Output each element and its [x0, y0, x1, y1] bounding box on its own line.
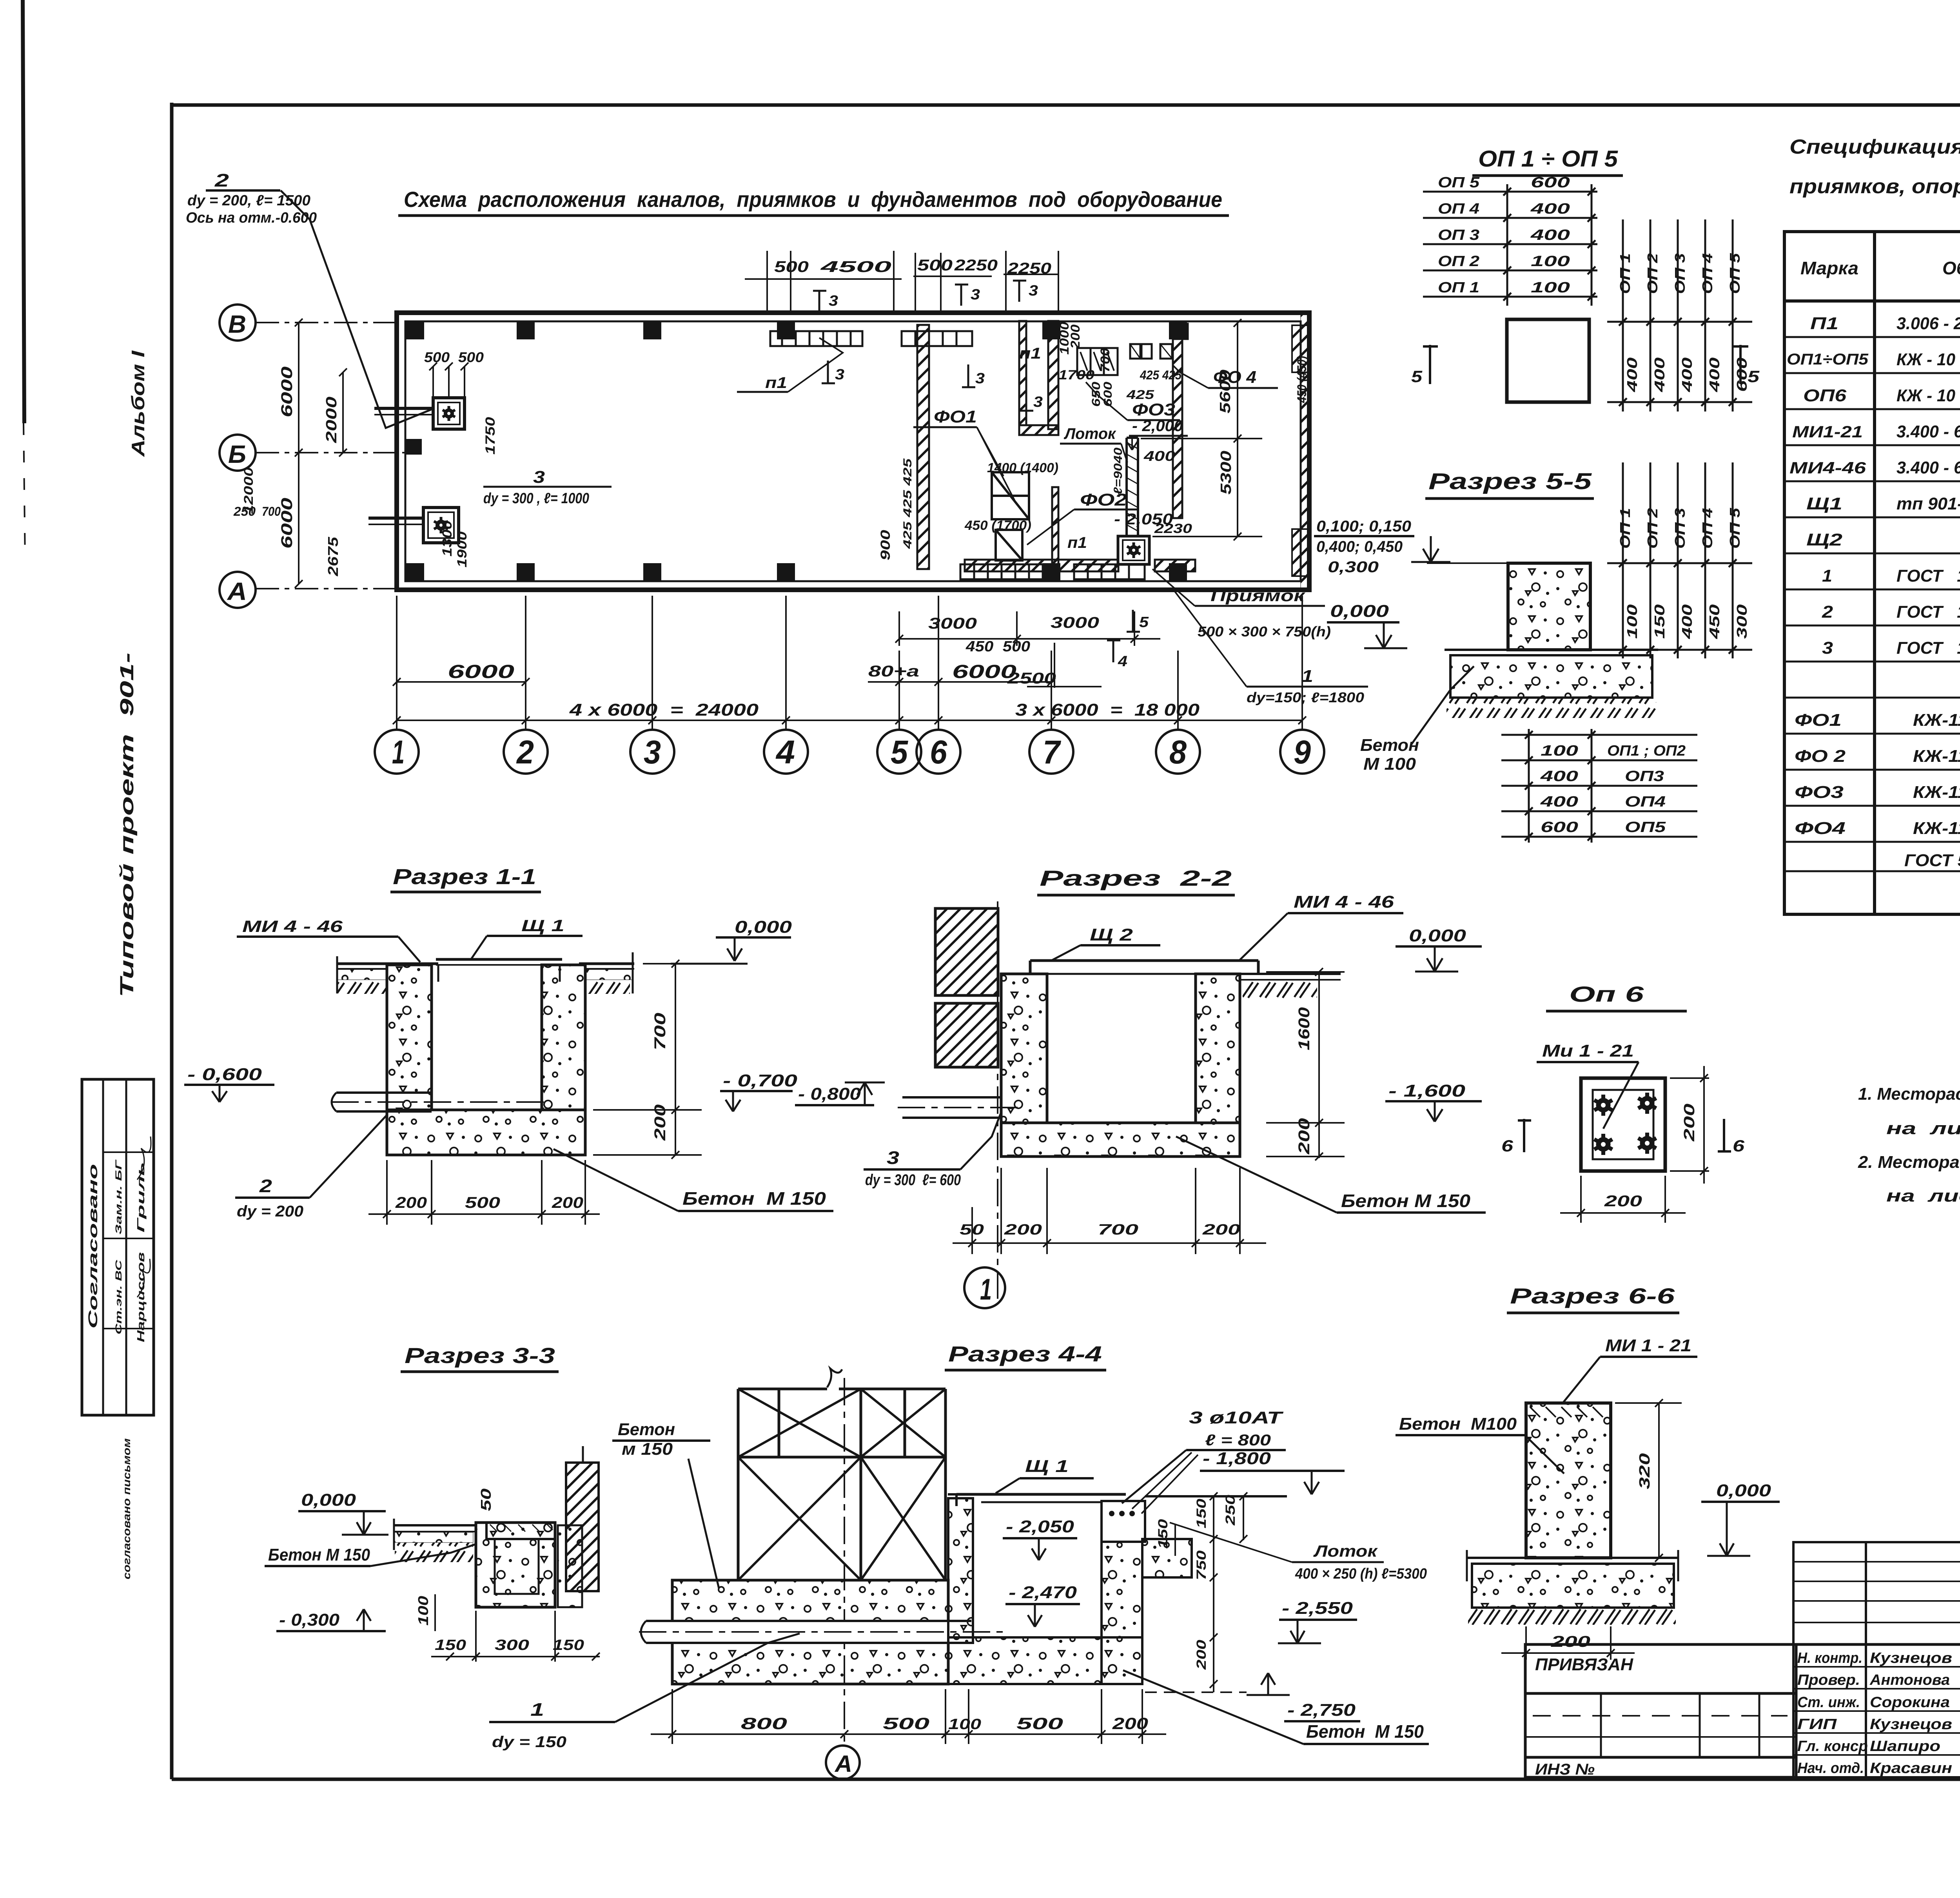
- svg-text:Марка: Марка: [1800, 258, 1858, 278]
- anchor stars: [1594, 1093, 1656, 1155]
- svg-text:200: 200: [552, 1194, 583, 1211]
- svg-text:200: 200: [1068, 324, 1082, 349]
- svg-text:Лоток: Лоток: [1063, 425, 1116, 442]
- svg-text:3: 3: [971, 286, 980, 303]
- privyazan box: [1525, 1644, 1796, 1777]
- svg-text:МИ 4 - 46: МИ 4 - 46: [1294, 892, 1394, 912]
- svg-text:ФО3: ФО3: [1795, 783, 1844, 802]
- svg-text:1700: 1700: [1058, 368, 1094, 383]
- svg-text:ОП4: ОП4: [1625, 794, 1666, 810]
- priyamok pit: [1118, 536, 1149, 564]
- svg-text:6000: 6000: [278, 498, 296, 549]
- svg-text:320: 320: [1637, 1453, 1653, 1489]
- right top equipment grid FO4: [1077, 324, 1188, 375]
- svg-text:3.400 - 6/76: 3.400 - 6/76: [1896, 458, 1960, 477]
- svg-text:3: 3: [644, 734, 661, 770]
- svg-text:1750: 1750: [483, 417, 498, 455]
- svg-text:КЖ - 10: КЖ - 10: [1896, 350, 1956, 369]
- svg-text:3000: 3000: [1051, 614, 1099, 631]
- svg-text:- 1,800: - 1,800: [1203, 1449, 1271, 1468]
- pipe left: [331, 1093, 545, 1111]
- dim 200 6-6: [1501, 1626, 1635, 1660]
- svg-text:500: 500: [465, 1194, 500, 1211]
- svg-text:450 (1700): 450 (1700): [964, 518, 1031, 533]
- svg-text:ОП1÷ОП5: ОП1÷ОП5: [1787, 351, 1869, 368]
- svg-text:Щ 2: Щ 2: [1090, 925, 1133, 944]
- svg-text:100: 100: [415, 1596, 431, 1626]
- 5-5 bottom mini table: [1501, 729, 1697, 843]
- left vertical dims: [295, 319, 347, 588]
- svg-text:3: 3: [533, 468, 545, 487]
- cover plate: [436, 959, 562, 982]
- 5-5 right rotated ladder: [1607, 462, 1752, 658]
- frame left border: [170, 103, 174, 1779]
- svg-text:ГОСТ 5781 - 81: ГОСТ 5781 - 81: [1904, 851, 1960, 870]
- scan edge artifact: [23, 0, 24, 423]
- flange 6-6: [1467, 1550, 1678, 1581]
- svg-text:ГОСТ 10704-76: ГОСТ 10704-76: [1896, 602, 1960, 622]
- svg-text:Нарциссов: Нарциссов: [135, 1252, 147, 1342]
- svg-text:Б: Б: [228, 440, 246, 468]
- svg-text:ОП 2: ОП 2: [1644, 508, 1661, 549]
- dim 320: [1615, 1399, 1682, 1562]
- svg-text:ОП5: ОП5: [1625, 819, 1666, 836]
- svg-text:2: 2: [1822, 602, 1833, 622]
- svg-text:500: 500: [774, 258, 809, 276]
- svg-text:0,000: 0,000: [1409, 926, 1466, 945]
- svg-text:dy = 300 ℓ= 600: dy = 300 ℓ= 600: [865, 1171, 961, 1189]
- svg-text:ФО1: ФО1: [1795, 711, 1842, 730]
- svg-text:600: 600: [1734, 357, 1750, 392]
- svg-text:4500: 4500: [820, 258, 891, 276]
- svg-text:КЖ-11: КЖ-11: [1913, 711, 1960, 730]
- cover plate 2-2: [1030, 961, 1258, 974]
- internal wall mid: [1019, 321, 1026, 425]
- svg-text:2: 2: [516, 734, 534, 770]
- top slab left: [394, 1519, 476, 1550]
- svg-text:ИНЗ №: ИНЗ №: [1535, 1761, 1595, 1778]
- svg-text:2. Месторасположение опор: 2. Месторасположение опор ОП6 смотри: [1858, 1153, 1960, 1172]
- svg-text:ОП 5: ОП 5: [1438, 174, 1480, 191]
- svg-text:5: 5: [1411, 367, 1423, 386]
- bottom dim rows: [393, 596, 1306, 729]
- svg-text:900: 900: [878, 530, 893, 560]
- svg-text:400: 400: [1530, 227, 1570, 243]
- svg-text:300: 300: [495, 1637, 529, 1653]
- svg-text:50: 50: [960, 1222, 984, 1238]
- svg-text:МИ 4 - 46: МИ 4 - 46: [242, 917, 343, 935]
- svg-text:400: 400: [1679, 357, 1695, 392]
- svg-text:п1: п1: [765, 374, 787, 392]
- svg-text:ОП 1: ОП 1: [1617, 508, 1633, 549]
- svg-text:50: 50: [478, 1488, 494, 1511]
- Op6 squares: [1581, 1078, 1665, 1171]
- svg-text:500: 500: [883, 1714, 929, 1733]
- section 3 flags above/below wall: [813, 280, 1033, 411]
- svg-text:ФО3: ФО3: [1132, 400, 1175, 419]
- svg-text:Бетон: Бетон: [618, 1420, 675, 1439]
- svg-text:dy=150; ℓ=1800: dy=150; ℓ=1800: [1247, 689, 1364, 705]
- svg-text:150: 150: [1156, 1519, 1171, 1549]
- bottom dims: [368, 1160, 600, 1225]
- svg-text:Антонова: Антонова: [1869, 1672, 1950, 1688]
- lotok block right: [1142, 1539, 1192, 1577]
- svg-text:В: В: [228, 310, 246, 338]
- svg-text:ОП 4: ОП 4: [1438, 201, 1479, 217]
- axis circle A: [826, 1746, 860, 1779]
- svg-text:600: 600: [1102, 382, 1114, 407]
- svg-text:2675: 2675: [325, 537, 341, 576]
- svg-text:Разрез 5-5: Разрез 5-5: [1428, 469, 1592, 494]
- svg-text:4: 4: [775, 734, 795, 770]
- svg-text:0,100; 0,150: 0,100; 0,150: [1316, 518, 1411, 535]
- svg-text:650: 650: [1090, 382, 1103, 407]
- svg-text:ОП3: ОП3: [1625, 768, 1664, 785]
- svg-text:- 2,050: - 2,050: [1006, 1517, 1074, 1536]
- pit 4-4: [948, 1498, 973, 1643]
- svg-text:ФО1: ФО1: [934, 407, 977, 426]
- svg-text:КЖ - 10: КЖ - 10: [1896, 386, 1956, 405]
- OP right rotated ladder: [1607, 219, 1752, 412]
- svg-text:2000: 2000: [323, 397, 340, 443]
- wall pilasters top: [406, 322, 1187, 580]
- svg-text:Зам.н. БГ: Зам.н. БГ: [114, 1159, 123, 1235]
- svg-text:2230: 2230: [1154, 521, 1192, 536]
- rebar block: [1102, 1501, 1145, 1542]
- bottom dims 2-2: [953, 1168, 1266, 1254]
- OP1-OP5 left dim ladder: [1423, 184, 1597, 306]
- svg-text:7: 7: [1043, 734, 1061, 770]
- svg-text:dy = 200: dy = 200: [237, 1203, 303, 1220]
- svg-text:Н. контр.: Н. контр.: [1797, 1650, 1862, 1666]
- right hatched wall: [566, 1463, 599, 1591]
- big slab: [672, 1580, 948, 1684]
- svg-text:6000: 6000: [448, 662, 514, 682]
- svg-text:3000: 3000: [928, 615, 977, 632]
- svg-text:3 ø10АТ: 3 ø10АТ: [1189, 1408, 1283, 1427]
- svg-text:3: 3: [1822, 638, 1833, 658]
- bottom-right plan dims: [895, 611, 1160, 646]
- svg-text:МИ1-21: МИ1-21: [1792, 422, 1863, 441]
- svg-text:Приямок: Приямок: [1210, 586, 1305, 605]
- svg-text:ОП 1 ÷ ОП 5: ОП 1 ÷ ОП 5: [1478, 146, 1618, 172]
- svg-text:700: 700: [652, 1013, 669, 1050]
- ground line right: [1145, 1495, 1287, 1497]
- svg-text:Нач. отд.: Нач. отд.: [1797, 1760, 1864, 1777]
- svg-text:КЖ-11: КЖ-11: [1913, 819, 1960, 838]
- svg-text:200: 200: [1604, 1193, 1642, 1210]
- svg-text:5: 5: [891, 734, 908, 770]
- svg-text:150: 150: [553, 1637, 584, 1653]
- svg-text:1: 1: [1822, 566, 1832, 586]
- svg-text:Согласовано: Согласовано: [86, 1164, 100, 1329]
- svg-text:М 100: М 100: [1363, 754, 1416, 774]
- equipment squares left bay: [368, 398, 465, 543]
- svg-text:200: 200: [1004, 1222, 1042, 1238]
- frame bottom border: [172, 1778, 1960, 1781]
- svg-text:ОП 5: ОП 5: [1727, 253, 1743, 294]
- svg-text:ОП 3: ОП 3: [1672, 508, 1688, 549]
- floor line left: [336, 952, 634, 993]
- dims above top wall: [745, 251, 1058, 313]
- svg-text:3: 3: [1029, 283, 1038, 299]
- svg-text:3: 3: [975, 370, 985, 387]
- svg-text:3.006 - 2 ; вып. П-2: 3.006 - 2 ; вып. П-2: [1896, 314, 1960, 333]
- svg-text:- 0,700: - 0,700: [723, 1071, 798, 1090]
- svg-text:5: 5: [1139, 614, 1149, 631]
- svg-text:100: 100: [948, 1716, 981, 1733]
- svg-text:700: 700: [1098, 348, 1112, 372]
- svg-text:ГОСТ 10704-76: ГОСТ 10704-76: [1896, 638, 1960, 658]
- soil under slab edges: [337, 970, 387, 980]
- svg-text:0,300: 0,300: [1328, 558, 1379, 576]
- svg-text:400: 400: [1706, 357, 1722, 392]
- right wall hatch: [1301, 313, 1309, 590]
- svg-text:Бетон М 150: Бетон М 150: [268, 1545, 370, 1564]
- left hatched column: [935, 908, 998, 995]
- svg-text:Кузнецов: Кузнецов: [1870, 1716, 1952, 1733]
- svg-text:ОП1 ; ОП2: ОП1 ; ОП2: [1607, 743, 1686, 759]
- svg-text:1600: 1600: [1296, 1007, 1313, 1050]
- svg-text:400: 400: [1679, 604, 1695, 639]
- lotok channel: [1127, 438, 1138, 537]
- svg-text:700: 700: [1098, 1222, 1138, 1238]
- svg-text:ОП 3: ОП 3: [1438, 227, 1479, 243]
- svg-text:3: 3: [1033, 394, 1043, 410]
- svg-text:КЖ-11: КЖ-11: [1913, 783, 1960, 802]
- internal wall axis6: [917, 325, 929, 569]
- 5-5 base concrete: [1450, 655, 1652, 698]
- equipment tower: [738, 1369, 946, 1580]
- svg-text:- 2,550: - 2,550: [1282, 1599, 1353, 1618]
- svg-text:Красавин: Красавин: [1870, 1760, 1952, 1777]
- svg-text:Альбом I: Альбом I: [128, 350, 148, 457]
- svg-text:Обозначение: Обозначение: [1942, 258, 1960, 278]
- svg-text:Спецификация элементов к сх: Спецификация элементов к схеме расположе…: [1789, 136, 1960, 158]
- svg-text:450 500: 450 500: [965, 638, 1030, 655]
- svg-text:А: А: [834, 1751, 852, 1777]
- svg-text:200: 200: [1551, 1633, 1590, 1650]
- svg-text:0,000: 0,000: [301, 1490, 356, 1510]
- section5 mark right: [1733, 345, 1748, 384]
- svg-text:Щ1: Щ1: [1806, 494, 1842, 513]
- svg-text:150: 150: [435, 1637, 466, 1653]
- svg-text:200: 200: [1202, 1222, 1240, 1238]
- svg-text:250: 250: [1223, 1495, 1238, 1526]
- svg-text:6: 6: [1501, 1137, 1514, 1155]
- svg-text:ОП 1: ОП 1: [1617, 253, 1633, 294]
- svg-text:Ст.эн. ВС: Ст.эн. ВС: [114, 1259, 123, 1334]
- svg-text:Бетон М100: Бетон М100: [1399, 1414, 1517, 1434]
- svg-text:3: 3: [887, 1148, 900, 1168]
- svg-text:1300: 1300: [440, 520, 455, 557]
- svg-text:3: 3: [829, 293, 838, 309]
- svg-text:400 × 250 (h) ℓ=5300: 400 × 250 (h) ℓ=5300: [1295, 1566, 1427, 1582]
- svg-text:450 (450): 450 (450): [1295, 356, 1309, 403]
- svg-text:500 × 300 × 750(h): 500 × 300 × 750(h): [1198, 624, 1331, 640]
- svg-text:2250: 2250: [954, 257, 998, 274]
- left signature grid: [1793, 1542, 1960, 1777]
- svg-text:ℓ=9040: ℓ=9040: [1112, 448, 1125, 495]
- svg-text:400: 400: [1540, 768, 1578, 785]
- svg-text:200: 200: [395, 1194, 427, 1211]
- svg-text:200: 200: [1296, 1118, 1313, 1155]
- svg-text:6000: 6000: [278, 366, 296, 417]
- svg-text:п1: п1: [1019, 345, 1041, 362]
- svg-text:Бетон М 150: Бетон М 150: [682, 1188, 826, 1209]
- svg-text:ОП6: ОП6: [1803, 386, 1847, 405]
- svg-text:Кузнецов: Кузнецов: [1870, 1650, 1952, 1666]
- OP square: [1507, 319, 1589, 402]
- svg-text:dy = 300 , ℓ= 1000: dy = 300 , ℓ= 1000: [483, 490, 589, 507]
- axis circles 1-9: [375, 730, 1324, 774]
- svg-text:500: 500: [1016, 1714, 1063, 1733]
- 5-5 ground hatch: [1446, 698, 1656, 718]
- cover Sch1: [948, 1494, 1126, 1506]
- svg-text:1: 1: [530, 1699, 544, 1720]
- svg-text:700: 700: [262, 504, 281, 518]
- svg-text:А: А: [227, 577, 247, 605]
- svg-text:ФО4: ФО4: [1795, 819, 1846, 838]
- svg-text:600: 600: [1531, 174, 1570, 191]
- dim 700/200 right: [593, 960, 702, 1159]
- svg-text:Разрез 4-4: Разрез 4-4: [948, 1341, 1102, 1366]
- axis dashdot: [997, 901, 998, 1305]
- svg-text:Ми 1 - 21: Ми 1 - 21: [1542, 1041, 1634, 1060]
- svg-text:ОП 2: ОП 2: [1644, 253, 1661, 294]
- bottom hatched strips: [965, 560, 1118, 571]
- svg-text:Лоток: Лоток: [1313, 1542, 1378, 1560]
- svg-text:ФО 2: ФО 2: [1795, 747, 1846, 766]
- svg-text:200: 200: [1681, 1104, 1698, 1142]
- pipe through slab: [646, 1621, 971, 1643]
- svg-text:ГОСТ 10704-76: ГОСТ 10704-76: [1896, 566, 1960, 586]
- bottom dims 3-3: [431, 1611, 600, 1662]
- bottom dims 4-4: [651, 1689, 1166, 1744]
- svg-text:6: 6: [1733, 1137, 1745, 1155]
- Op6 dims: [1560, 1066, 1709, 1223]
- svg-text:тп 901-: тп 901-: [1896, 494, 1960, 513]
- svg-text:dy = 150: dy = 150: [492, 1733, 566, 1751]
- internal wall axis8: [1173, 324, 1182, 518]
- svg-text:- 2,000: - 2,000: [1132, 417, 1183, 435]
- svg-text:1: 1: [980, 1273, 992, 1306]
- pedestal 6-6: [1526, 1403, 1611, 1558]
- svg-text:1. Месторасположение опор ОП: 1. Месторасположение опор ОП1 ÷ ОП5 смот…: [1858, 1084, 1960, 1104]
- svg-text:6000: 6000: [952, 662, 1016, 682]
- channel box: [476, 1523, 555, 1607]
- svg-text:- 0,300: - 0,300: [279, 1610, 340, 1630]
- leader label 2 top-left: [186, 170, 431, 428]
- frame top border: [172, 103, 1960, 107]
- svg-text:425: 425: [1126, 388, 1155, 402]
- svg-text:425 425 425: 425 425 425: [901, 458, 914, 549]
- svg-text:на листе. КМ-6.: на листе. КМ-6.: [1886, 1186, 1960, 1206]
- svg-text:Провер.: Провер.: [1797, 1672, 1860, 1688]
- svg-text:4: 4: [1118, 653, 1127, 670]
- svg-text:450: 450: [1706, 604, 1722, 639]
- svg-text:300: 300: [1734, 604, 1750, 639]
- svg-text:400: 400: [1540, 794, 1578, 810]
- svg-text:- 2,470: - 2,470: [1009, 1583, 1077, 1602]
- right ground slab: [1240, 974, 1341, 980]
- svg-text:Гл. конср: Гл. конср: [1797, 1738, 1868, 1755]
- svg-text:150: 150: [1194, 1499, 1209, 1528]
- svg-text:на листах ТХ.: на листах ТХ.: [1886, 1119, 1960, 1138]
- svg-text:Схема расположения каналов,: Схема расположения каналов, приямков и ф…: [404, 187, 1222, 212]
- svg-text:Бетон: Бетон: [1360, 736, 1419, 755]
- svg-text:100: 100: [1531, 279, 1570, 296]
- svg-text:Щ2: Щ2: [1806, 530, 1843, 549]
- svg-text:400: 400: [1651, 357, 1668, 392]
- svg-text:800: 800: [741, 1714, 787, 1733]
- svg-text:Щ 1: Щ 1: [521, 916, 564, 935]
- pit walls & floor 2-2: [1001, 974, 1047, 1123]
- dim 1600/200: [1266, 968, 1345, 1160]
- svg-text:ОП 1: ОП 1: [1438, 279, 1479, 296]
- svg-text:100: 100: [1624, 604, 1640, 639]
- svg-text:согласовано письмом: согласовано письмом: [121, 1438, 132, 1579]
- right dotted column: [558, 1525, 582, 1607]
- svg-text:4 х 6000 = 24000: 4 х 6000 = 24000: [569, 700, 759, 720]
- svg-text:1900: 1900: [455, 531, 470, 567]
- building outer wall: [397, 313, 1309, 590]
- svg-text:Разрез 1-1: Разрез 1-1: [393, 864, 536, 889]
- svg-text:КЖ-11: КЖ-11: [1913, 747, 1960, 766]
- svg-text:Бетон М 150: Бетон М 150: [1306, 1721, 1424, 1742]
- svg-text:Разрез 3-3: Разрез 3-3: [405, 1343, 555, 1368]
- svg-text:400: 400: [1624, 357, 1640, 392]
- svg-text:ПРИВЯЗАН: ПРИВЯЗАН: [1535, 1655, 1633, 1674]
- svg-text:5600: 5600: [1217, 370, 1234, 413]
- svg-text:400: 400: [1143, 448, 1175, 464]
- axis circle 1: [964, 1267, 1005, 1308]
- svg-text:250: 250: [233, 504, 256, 518]
- pipe left 2-2: [898, 1097, 1019, 1118]
- svg-text:100: 100: [1541, 743, 1578, 759]
- 5-5 pedestal: [1508, 563, 1590, 650]
- svg-text:ОП 5: ОП 5: [1727, 508, 1743, 549]
- svg-text:8: 8: [1169, 734, 1187, 770]
- spec table grid: [1784, 232, 1960, 914]
- svg-text:9: 9: [1294, 734, 1311, 770]
- svg-text:п1: п1: [1067, 534, 1087, 551]
- svg-text:Щ 1: Щ 1: [1025, 1457, 1069, 1476]
- svg-text:3 х 6000 = 18 000: 3 х 6000 = 18 000: [1015, 700, 1200, 720]
- svg-text:- 1,600: - 1,600: [1388, 1081, 1466, 1100]
- svg-text:1: 1: [392, 734, 405, 770]
- svg-text:5300: 5300: [1218, 451, 1234, 495]
- section 6 marks: [1518, 1119, 1531, 1152]
- svg-text:200: 200: [652, 1104, 669, 1141]
- svg-text:ОП 4: ОП 4: [1699, 508, 1715, 549]
- approval table: [82, 1079, 154, 1415]
- svg-text:100: 100: [1531, 253, 1570, 270]
- svg-text:1: 1: [1301, 667, 1313, 686]
- section5 mark left: [1423, 345, 1438, 384]
- svg-text:2: 2: [259, 1176, 272, 1196]
- svg-text:750: 750: [1194, 1550, 1209, 1580]
- svg-text:Ось на отм.-0.600: Ось на отм.-0.600: [186, 210, 317, 226]
- svg-text:МИ 1 - 21: МИ 1 - 21: [1605, 1336, 1691, 1355]
- svg-text:Разрез 6-6: Разрез 6-6: [1510, 1283, 1675, 1308]
- svg-text:500: 500: [917, 257, 953, 274]
- svg-text:Ст. инж.: Ст. инж.: [1797, 1694, 1860, 1711]
- svg-text:ОП 2: ОП 2: [1438, 253, 1479, 270]
- svg-text:0,000: 0,000: [1716, 1481, 1771, 1500]
- svg-text:500 500: 500 500: [424, 349, 484, 365]
- svg-text:80+а: 80+а: [868, 663, 919, 680]
